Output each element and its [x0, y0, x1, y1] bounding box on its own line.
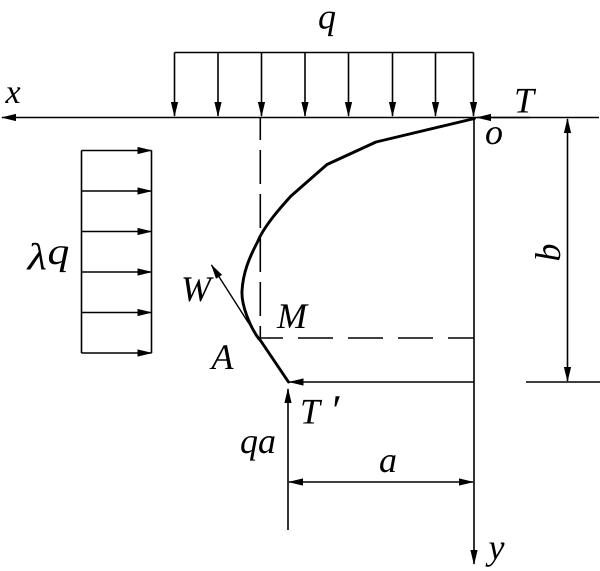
cable straight segment A to T' [260, 339, 289, 382]
svg-text:q: q [318, 0, 336, 37]
force T' line [290, 381, 475, 383]
lateral load arrow 6 [82, 352, 152, 354]
svg-text:′: ′ [330, 386, 341, 435]
vertical dashed line [259, 118, 261, 339]
svg-text:T: T [514, 81, 537, 121]
force qa arrow [287, 389, 289, 530]
load arrow 8 [473, 53, 475, 117]
lateral load arrow 1 [82, 150, 152, 152]
load arrow 1 [174, 53, 176, 117]
lateral load arrow 5 [82, 312, 152, 314]
svg-text:b: b [528, 244, 568, 262]
svg-text:a: a [379, 440, 397, 480]
load arrow 3 [261, 53, 263, 117]
dimension b bottom tick [526, 381, 600, 383]
force W arrow [212, 265, 262, 343]
load arrow 2 [217, 53, 219, 117]
y-axis [473, 118, 475, 565]
x-axis [2, 117, 599, 119]
horizontal dashed line [259, 337, 474, 339]
svg-text:o: o [485, 112, 503, 152]
lateral load right line [151, 151, 153, 354]
svg-text:W: W [181, 269, 214, 309]
svg-text:A: A [210, 337, 235, 377]
svg-text:λ: λ [26, 237, 47, 279]
svg-text:M: M [276, 296, 309, 336]
lateral load arrow 3 [82, 231, 152, 233]
load arrow 6 [392, 53, 394, 117]
svg-text:qa: qa [240, 421, 276, 461]
lateral load lambda-q left line [81, 151, 83, 354]
svg-text:q: q [48, 231, 70, 273]
distributed load q top line [175, 52, 474, 54]
svg-text:x: x [5, 74, 21, 111]
svg-text:y: y [486, 527, 505, 567]
svg-text:T: T [300, 392, 323, 432]
dimension b line [567, 119, 569, 381]
lateral load arrow 2 [82, 190, 152, 192]
load arrow 5 [348, 53, 350, 117]
label lambda-q [26, 237, 47, 279]
load arrow 7 [435, 53, 437, 117]
lateral load arrow 4 [82, 271, 152, 273]
load arrow 4 [304, 53, 306, 117]
force T arrowhead on x-axis [477, 117, 530, 119]
cable curve [242, 119, 475, 340]
dimension a line [289, 481, 473, 483]
